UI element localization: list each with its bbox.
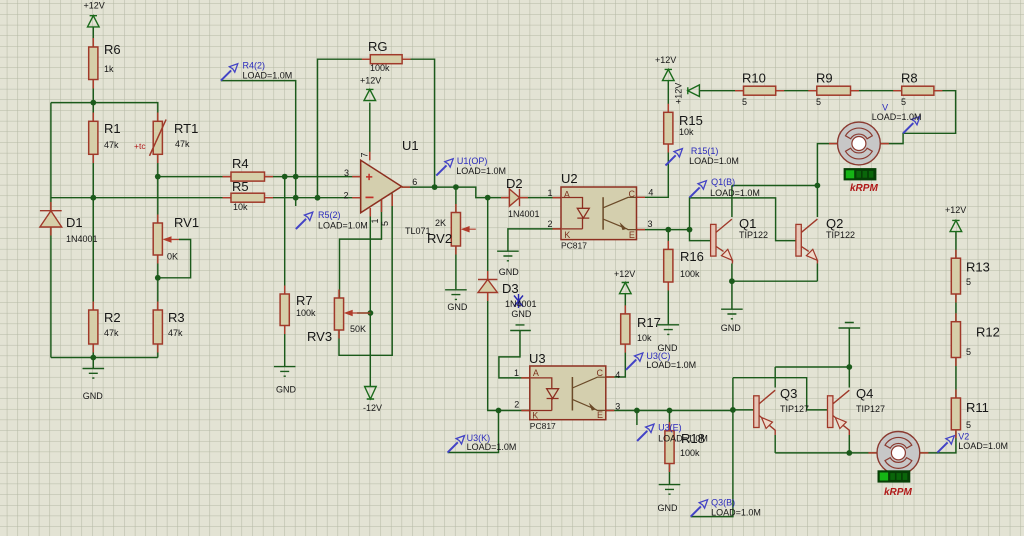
pin stubs U2 (553, 197, 646, 229)
resistor R16 body (664, 249, 673, 282)
svg-text:D1: D1 (66, 215, 83, 230)
wire emitter line (732, 280, 818, 282)
wire RT1 bottom to node (157, 154, 159, 176)
node junction Q1 base tap (687, 227, 693, 233)
node junction R16 tap (665, 227, 671, 233)
transistor Q2 (796, 219, 818, 263)
ground below R7 (274, 367, 296, 377)
resistor RG body (370, 55, 402, 64)
probe arrow R5(2) (296, 212, 313, 229)
svg-text:U3: U3 (529, 351, 546, 366)
svg-text:1N4001: 1N4001 (508, 209, 540, 219)
power +12V arrow op-amp (364, 89, 376, 100)
resistor R15 body (664, 112, 673, 144)
svg-text:GND: GND (276, 385, 297, 395)
pin stubs R7 (284, 286, 286, 335)
wire R15 top to +12V (667, 81, 669, 113)
resistor R13 body (951, 258, 960, 294)
wire U2 pin4 to R15 (637, 144, 669, 197)
wire U3 pin3 emitter line to Q3 net (606, 410, 733, 412)
node junction bottom GND (90, 355, 96, 361)
svg-text:5: 5 (966, 420, 971, 430)
svg-text:LOAD=1.0M: LOAD=1.0M (689, 156, 739, 166)
pin stubs RT1 (157, 113, 159, 164)
svg-text:1N4001: 1N4001 (505, 299, 537, 309)
node junction RG feedback tap (315, 195, 321, 201)
ground inverted above Q3 Q4 (839, 323, 861, 330)
pin stubs op-amp U1 (352, 152, 410, 217)
svg-text:Q1(B): Q1(B) (711, 177, 735, 187)
svg-text:U1: U1 (402, 138, 419, 153)
svg-text:R13: R13 (966, 260, 990, 275)
pin stubs RV2 (455, 204, 457, 255)
potentiometer RV1 wiper arrow (164, 237, 179, 242)
resistor R11 body (951, 398, 960, 430)
svg-text:LOAD=1.0M: LOAD=1.0M (456, 166, 506, 176)
node junction Q4 emitter motor2 (846, 450, 852, 456)
svg-text:GND: GND (658, 503, 679, 513)
wire RV3 bottom to -12V rail (339, 194, 392, 356)
wire RG right leg to output (402, 59, 435, 187)
pin stubs motor2 (868, 452, 928, 454)
op-amp U1 (361, 160, 402, 213)
svg-text:10k: 10k (233, 202, 248, 212)
ground below U2 pin2 (497, 251, 519, 261)
pin stubs R10 (735, 90, 784, 92)
svg-text:100k: 100k (296, 308, 316, 318)
svg-text:E: E (597, 410, 603, 420)
wire +12V to R13 (955, 232, 957, 259)
svg-text:A: A (533, 368, 539, 378)
svg-text:R7: R7 (296, 293, 313, 308)
wire U2 pin2 to GND (508, 229, 561, 251)
svg-text:GND: GND (83, 391, 104, 401)
display RPM meter 1 (844, 168, 877, 180)
svg-text:LOAD=1.0M: LOAD=1.0M (646, 360, 696, 370)
wire +12V to op-amp V+ (369, 103, 371, 161)
wire RG left leg to inverting net (318, 59, 371, 198)
svg-text:kRPM: kRPM (850, 183, 878, 194)
svg-text:3: 3 (615, 402, 620, 412)
probe arrow U1(OP) (436, 159, 453, 176)
svg-text:1: 1 (548, 188, 553, 198)
svg-text:R8: R8 (901, 71, 918, 86)
ground below R16 (658, 325, 680, 335)
svg-text:R12: R12 (976, 325, 1000, 340)
wire jog to Q1 base (690, 230, 711, 241)
motor M2 (877, 432, 920, 475)
svg-text:RV3: RV3 (307, 329, 332, 344)
svg-text:Q2: Q2 (826, 216, 843, 231)
svg-text:5: 5 (966, 277, 971, 287)
svg-text:D2: D2 (506, 176, 523, 191)
svg-text:R2: R2 (104, 310, 121, 325)
probe arrow Q1(B) (690, 181, 707, 198)
node junction R1 bottom (90, 195, 96, 201)
wire probe R5(2) stub (295, 177, 297, 206)
svg-text:2K: 2K (435, 218, 446, 228)
wire Q2 emitter vertical (816, 264, 818, 282)
pin stubs R6 (92, 38, 94, 89)
probe arrow U3(C) (626, 353, 643, 370)
wire D3 to U3 K line (488, 293, 530, 411)
node junction R6 bottom (90, 100, 96, 106)
wire floating GND stub (848, 328, 850, 367)
node junction emitter GND (729, 278, 735, 284)
pin stubs R8 (893, 90, 942, 92)
svg-text:PC817: PC817 (561, 241, 587, 251)
svg-text:47k: 47k (168, 328, 183, 338)
node junction output RV2 (453, 184, 459, 190)
potentiometer RV3 body (334, 298, 343, 330)
wire R17 top to +12V (624, 294, 626, 314)
resistor R18 body (665, 431, 674, 464)
diode D1 (40, 211, 62, 227)
probe arrow U3(K) (448, 436, 465, 453)
pin stubs R11 (955, 390, 957, 439)
ground inverted above U3 pin1 (510, 325, 531, 332)
node junction U3 K probe tap (496, 408, 502, 414)
pin stubs R3 (157, 302, 159, 353)
resistor R12 body (951, 322, 960, 358)
node junction R7 tap (282, 174, 288, 180)
pin stubs D3 (487, 271, 489, 301)
svg-text:LOAD=1.0M: LOAD=1.0M (710, 188, 760, 198)
wire collector link horizontal (732, 185, 818, 187)
svg-text:D3: D3 (502, 281, 519, 296)
svg-text:R5: R5 (232, 179, 249, 194)
svg-text:GND: GND (447, 302, 468, 312)
pin stubs R1 (92, 113, 94, 164)
optocoupler U3 (530, 366, 606, 420)
transistor Q3 (754, 390, 776, 435)
wire R8 to motor1 right (880, 91, 955, 144)
resistor R1 body (89, 121, 98, 154)
node junction Q3 base net (730, 407, 736, 413)
svg-text:1: 1 (514, 368, 519, 378)
wire emitter line to motor2 (775, 452, 877, 454)
svg-text:GND: GND (721, 323, 742, 333)
resistor R9 body (817, 86, 851, 95)
potentiometer RV1 body (153, 223, 162, 255)
svg-text:5: 5 (742, 97, 747, 107)
wire +12V arrow to R10 (700, 90, 744, 92)
pin stubs R5 (223, 197, 274, 199)
node junction collector link (815, 183, 821, 189)
probe arrow V2 (937, 436, 954, 453)
wire R16 bottom to GND (667, 282, 669, 324)
wire Q1 emitter vertical (731, 264, 733, 282)
wire top horizontal node to RT1 (51, 103, 158, 122)
svg-text:LOAD=1.0M: LOAD=1.0M (872, 112, 922, 122)
pin stubs RG (362, 58, 411, 60)
thermistor RT1 body (153, 121, 162, 154)
power +12V arrow right column (950, 220, 962, 231)
svg-text:2: 2 (344, 191, 349, 201)
wire R18 bottom to GND (669, 464, 671, 485)
svg-text:5: 5 (901, 97, 906, 107)
ground below R18 (659, 485, 681, 495)
wire U3 pin1 jog from floating gnd (499, 332, 530, 378)
wire R10 to R9 (776, 90, 817, 92)
ground below RV2 (445, 290, 467, 300)
wire R18 branch (669, 411, 671, 431)
svg-text:LOAD=1.0M: LOAD=1.0M (243, 71, 293, 81)
svg-text:1N4001: 1N4001 (66, 234, 98, 244)
wire R7 branch from non-inverting net (284, 177, 286, 294)
svg-text:PC817: PC817 (530, 421, 556, 431)
wire Q4 emitter vertical (848, 435, 850, 453)
wire R1 branch (92, 103, 94, 198)
svg-text:U3(E): U3(E) (658, 423, 682, 433)
probe arrow R15(1) (666, 149, 683, 166)
node junction output RG (432, 184, 438, 190)
pin stubs R4 (223, 176, 274, 178)
resistor R6 body (89, 47, 98, 80)
svg-text:V: V (882, 103, 888, 113)
node junction U3 E probe tap (634, 408, 640, 414)
svg-text:RG: RG (368, 39, 388, 54)
svg-text:LOAD=1.0M: LOAD=1.0M (711, 508, 761, 518)
svg-text:+12V: +12V (84, 1, 105, 11)
wire RV2 top (455, 187, 457, 212)
svg-text:R16: R16 (680, 249, 704, 264)
pin stubs motor1 (829, 143, 889, 145)
svg-text:100k: 100k (370, 63, 390, 73)
pin stubs D1 (50, 202, 52, 236)
wire R5 to op-amp inverting input (265, 197, 361, 199)
ground below R2 R3 (83, 369, 105, 379)
resistor R4 body (231, 172, 265, 181)
probe arrow V (903, 116, 920, 133)
resistor R7 body (280, 294, 289, 326)
node junction D3 tap (485, 195, 491, 201)
wire base link to Q2 (690, 198, 796, 241)
svg-text:LOAD=1.0M: LOAD=1.0M (658, 434, 708, 444)
svg-text:1: 1 (370, 218, 380, 223)
motor M1 (838, 122, 881, 165)
svg-text:5: 5 (966, 347, 971, 357)
wire R16 branch (667, 230, 669, 250)
node junction probe R4(2) tap (293, 174, 299, 180)
power +12V arrow top-left (88, 16, 100, 27)
svg-text:10k: 10k (637, 333, 652, 343)
probe arrow U3(E) (637, 424, 654, 441)
svg-text:47k: 47k (175, 139, 190, 149)
wire offset null horizontal (340, 200, 382, 298)
wire GND stub left (92, 358, 94, 369)
svg-text:47k: 47k (104, 140, 119, 150)
svg-text:4: 4 (648, 188, 653, 198)
wire Q4 collector vertical (848, 367, 850, 388)
svg-text:5: 5 (380, 221, 390, 226)
svg-text:E: E (629, 230, 635, 240)
wire op-amp V- vertical to -12V (369, 208, 371, 387)
wire collector link Q3 Q4 (775, 366, 849, 368)
probe arrow R4(2) (221, 64, 238, 81)
wire R12 to R11 (955, 358, 957, 399)
svg-text:2: 2 (514, 400, 519, 410)
svg-text:R4: R4 (232, 156, 249, 171)
wire node to R4 (158, 176, 231, 178)
wire op-amp output to D2 (402, 187, 510, 198)
wire R4 to op-amp non-inverting input (265, 176, 361, 178)
svg-text:Q1: Q1 (739, 216, 756, 231)
resistor R5 body (231, 193, 265, 202)
svg-text:GND: GND (511, 309, 532, 319)
svg-text:RT1: RT1 (174, 121, 198, 136)
svg-text:100k: 100k (680, 269, 700, 279)
svg-text:6: 6 (412, 177, 417, 187)
svg-text:C: C (629, 189, 636, 199)
wire U2 pin3 emitter line (637, 229, 690, 231)
svg-text:R10: R10 (742, 71, 766, 86)
svg-text:Q3(B): Q3(B) (711, 498, 735, 508)
pin stubs R18 (669, 422, 671, 472)
wire node down to RV1 (157, 177, 159, 223)
svg-text:TIP122: TIP122 (739, 230, 768, 240)
wire RV3 wiper to V- net (357, 312, 370, 314)
svg-text:1k: 1k (104, 64, 114, 74)
pin stubs D2 (501, 197, 528, 199)
svg-text:R15(1): R15(1) (691, 146, 719, 156)
wire U3(K) probe attachment (448, 411, 499, 453)
svg-text:TIP127: TIP127 (856, 404, 885, 414)
node junction RT1 bottom (155, 174, 161, 180)
wire Q3 base net vertical with probe (691, 378, 733, 517)
pin stubs R9 (808, 90, 859, 92)
power +12V arrow R15 (663, 69, 675, 80)
wire +12V supply to R6 (92, 27, 94, 103)
wire D3 branch vertical (487, 198, 489, 280)
svg-text:4: 4 (615, 370, 620, 380)
wire R3 bottom (157, 344, 159, 358)
svg-text:RV2: RV2 (427, 231, 452, 246)
svg-text:C: C (597, 368, 604, 378)
wire R7 bottom to GND (284, 326, 286, 367)
svg-text:47k: 47k (104, 328, 119, 338)
svg-text:R3: R3 (168, 310, 185, 325)
svg-text:TIP122: TIP122 (826, 230, 855, 240)
svg-text:R1: R1 (104, 121, 121, 136)
resistor R8 body (902, 86, 934, 95)
power +12V arrow horizontal left-pointing (688, 85, 700, 97)
resistor R3 body (153, 310, 162, 344)
svg-text:U1(OP): U1(OP) (457, 156, 488, 166)
svg-text:GND: GND (499, 267, 520, 277)
pin stubs RV3 (338, 290, 340, 339)
svg-text:LOAD=1.0M: LOAD=1.0M (958, 441, 1008, 451)
power +12V arrow R17 (620, 283, 632, 294)
svg-text:50K: 50K (350, 324, 366, 334)
thermistor RT1 diagonal (150, 120, 167, 156)
display RPM meter 2 (878, 470, 911, 482)
svg-text:K: K (564, 230, 570, 240)
svg-text:-12V: -12V (363, 403, 382, 413)
wire U3 pin4 to R17 (606, 344, 626, 377)
pin stubs RV1 (157, 215, 159, 264)
svg-text:U2: U2 (561, 171, 578, 186)
diode D3 (478, 280, 497, 293)
svg-text:R4(2): R4(2) (243, 61, 266, 71)
wire U3(E) probe stub (636, 411, 638, 426)
svg-text:R6: R6 (104, 42, 121, 57)
node junction probe R5(2) tap (293, 195, 299, 201)
svg-text:5: 5 (816, 97, 821, 107)
svg-text:R11: R11 (966, 400, 989, 415)
ground below Q1 Q2 emitters (721, 309, 743, 319)
svg-text:R9: R9 (816, 71, 833, 86)
node junction RV3 wiper (368, 310, 374, 316)
pin stubs U3 (521, 377, 614, 411)
pin stubs R16 (667, 241, 669, 291)
probe arrow Q3(B) (691, 500, 708, 517)
svg-text:K: K (532, 411, 538, 421)
svg-text:+12V: +12V (614, 269, 635, 279)
pin stubs R2 (92, 302, 94, 353)
wire R2 branch (92, 198, 94, 358)
svg-text:3: 3 (344, 168, 349, 178)
node junction Q4 collector gnd (846, 364, 852, 370)
svg-text:R5(2): R5(2) (318, 210, 341, 220)
svg-text:TIP127: TIP127 (780, 404, 809, 414)
node junction R18 tap (667, 408, 673, 414)
wire R9 to R8 (851, 90, 902, 92)
wire motor2 right to R11 (920, 430, 956, 453)
svg-text:R15: R15 (679, 113, 703, 128)
svg-text:+12V: +12V (945, 205, 966, 215)
svg-text:V2: V2 (958, 432, 969, 442)
wire RV1 wiper loop (158, 240, 191, 278)
svg-text:+12V: +12V (360, 76, 381, 86)
wire RV2 bottom to GND (455, 246, 457, 289)
wire probe R4(2) attachment (221, 81, 296, 177)
svg-text:+tc: +tc (134, 141, 146, 151)
potentiometer RV3 wiper arrow (346, 311, 371, 316)
pin stubs R12 (955, 313, 957, 366)
svg-text:7: 7 (359, 152, 369, 157)
svg-text:2: 2 (548, 219, 553, 229)
svg-text:+12V: +12V (674, 83, 684, 104)
wire motor1 left to collectors (817, 144, 839, 217)
wire D2 cathode to U2 pin1 (520, 197, 562, 199)
svg-text:10k: 10k (679, 127, 694, 137)
svg-text:Q4: Q4 (856, 386, 873, 401)
resistor R2 body (89, 310, 98, 344)
diode D2 (509, 189, 519, 206)
pin stubs R15 (667, 104, 669, 153)
svg-text:Q3: Q3 (780, 386, 797, 401)
resistor R17 body (621, 314, 630, 344)
transistor Q1 (711, 219, 733, 263)
svg-text:RV1: RV1 (174, 215, 199, 230)
power -12V arrow down (365, 387, 377, 400)
wire RV1 bottom to R3 (157, 255, 159, 310)
resistor R10 body (744, 86, 776, 95)
wire bottom horizontal to GND (51, 357, 158, 359)
svg-text:R17: R17 (637, 315, 661, 330)
optocoupler U2 (561, 187, 637, 240)
svg-text:LOAD=1.0M: LOAD=1.0M (318, 221, 368, 231)
wire left vertical through D1 (50, 103, 52, 358)
svg-text:A: A (564, 190, 570, 200)
transistor Q4 (828, 390, 850, 435)
svg-text:0K: 0K (167, 252, 178, 262)
wire Q1 collector vertical (731, 186, 733, 218)
svg-text:100k: 100k (680, 448, 700, 458)
wire Q3 base (733, 409, 754, 411)
wire base link to Q4 (733, 378, 828, 410)
